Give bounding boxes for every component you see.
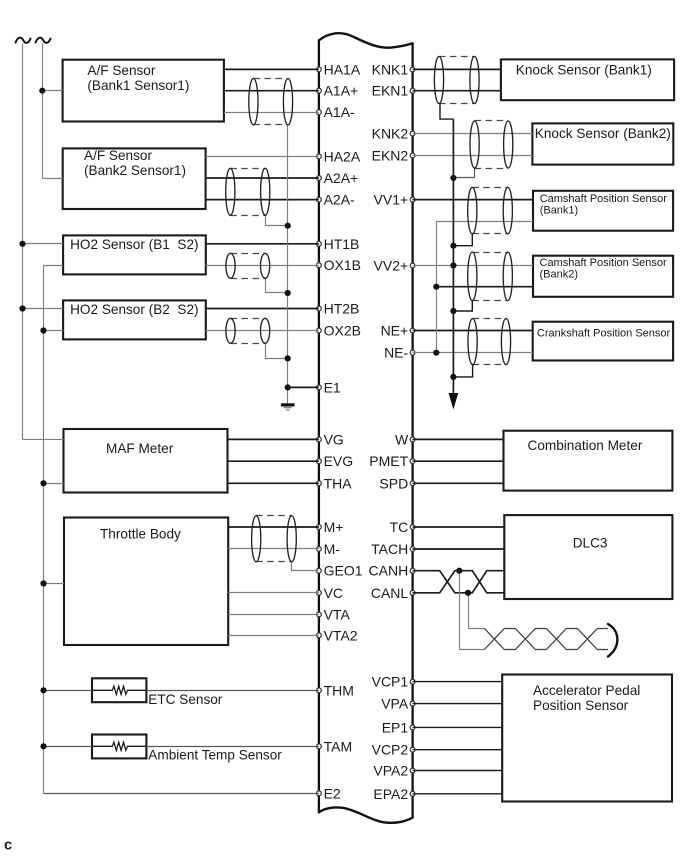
ECM pin EKN2 bbox=[372, 148, 415, 164]
wire HA1A bbox=[224, 68, 319, 70]
box Combination Meter bbox=[504, 431, 673, 491]
svg-text:VV2+: VV2+ bbox=[374, 258, 409, 274]
svg-text:OX1B: OX1B bbox=[324, 257, 361, 273]
wire NE+ bbox=[413, 330, 533, 332]
svg-text:M+: M+ bbox=[324, 519, 344, 535]
knock/cam shield drain rail (vertical) bbox=[452, 119, 454, 394]
svg-text:HA1A: HA1A bbox=[324, 61, 361, 77]
wire rail2 corner into A/F Bank2 bbox=[42, 178, 62, 180]
ECM pin THA bbox=[317, 475, 353, 491]
shield throttle motor cable bbox=[252, 516, 297, 562]
svg-text:GEO1: GEO1 bbox=[324, 563, 363, 579]
ECM pin SPD bbox=[379, 475, 415, 491]
junction CANH branch bbox=[456, 568, 462, 574]
svg-text:A/F Sensor: A/F Sensor bbox=[87, 63, 155, 78]
svg-text:Position Sensor: Position Sensor bbox=[533, 698, 629, 713]
box A/F Sensor (Bank2 Sensor1) bbox=[63, 148, 206, 209]
wire HA2A bbox=[206, 156, 319, 158]
junction NE- rail-NE- bbox=[433, 350, 439, 356]
junction drain-VV2+ bbox=[450, 262, 456, 268]
wire M+ bbox=[228, 526, 319, 528]
wire EPA2 to pedal sensor bbox=[413, 793, 503, 795]
ECM pin EP1 bbox=[382, 719, 415, 735]
box MAF Meter bbox=[64, 429, 228, 493]
ECM pin VV1+ bbox=[374, 192, 415, 208]
camshaft/crank return rail (vertical) bbox=[436, 222, 438, 353]
ECM pin TAM bbox=[317, 738, 353, 754]
shield A/F Bank1 cable bbox=[249, 78, 293, 125]
wire CANH (twisted pair upper) bbox=[413, 571, 505, 593]
svg-text:VCP1: VCP1 bbox=[372, 674, 409, 690]
svg-text:HO2 Sensor (B2 S2): HO2 Sensor (B2 S2) bbox=[70, 302, 198, 317]
svg-text:CANH: CANH bbox=[369, 563, 409, 579]
svg-text:A2A+: A2A+ bbox=[324, 170, 359, 186]
svg-text:EPA2: EPA2 bbox=[373, 786, 408, 802]
svg-text:EVG: EVG bbox=[324, 453, 354, 469]
box Camshaft Position Sensor (Bank1) bbox=[533, 191, 673, 231]
ECM pin A2A+ bbox=[317, 170, 359, 186]
ECM pin VC bbox=[317, 585, 344, 601]
box A/F Sensor (Bank1 Sensor1) bbox=[63, 60, 224, 122]
ECM pin E1 bbox=[317, 379, 341, 395]
wire THA bbox=[228, 482, 319, 484]
junction ground rail-THA bbox=[40, 480, 46, 486]
shield OX1B cable bbox=[226, 253, 270, 278]
ground symbol E1 bbox=[281, 405, 295, 410]
shield A/F Bank2 cable bbox=[226, 168, 270, 215]
wire TC bbox=[413, 526, 505, 528]
svg-text:(Bank1 Sensor1): (Bank1 Sensor1) bbox=[87, 78, 189, 93]
svg-text:VG: VG bbox=[324, 431, 344, 447]
wire VCP2 to pedal sensor bbox=[413, 749, 503, 751]
svg-text:TC: TC bbox=[390, 519, 409, 535]
svg-text:Camshaft Position Sensor: Camshaft Position Sensor bbox=[540, 257, 668, 269]
ECM pin EKN1 bbox=[372, 83, 415, 99]
svg-text:A2A-: A2A- bbox=[324, 192, 355, 208]
wire W bbox=[413, 438, 504, 440]
box Knock Sensor (Bank2) bbox=[532, 123, 673, 164]
shield drain camshaft Bank1 elbow bbox=[453, 234, 472, 246]
ECM pin OX1B bbox=[317, 257, 361, 273]
svg-text:HO2 Sensor (B1 S2): HO2 Sensor (B1 S2) bbox=[70, 237, 198, 252]
wire VV2+ bbox=[413, 265, 533, 267]
wire ground rail to ETC resistor bbox=[44, 690, 93, 692]
ECM connector right edge bbox=[411, 43, 413, 817]
svg-text:E1: E1 bbox=[324, 379, 341, 395]
junction drain-E1 bbox=[285, 384, 291, 390]
ECM pin THM bbox=[317, 682, 354, 698]
wire TACH bbox=[413, 548, 505, 550]
wire CANL (twisted pair lower) bbox=[413, 571, 505, 593]
svg-text:DLC3: DLC3 bbox=[573, 536, 608, 551]
ECM pin KNK2 bbox=[372, 126, 415, 142]
shield camshaft Bank1 cable bbox=[468, 187, 513, 234]
svg-text:PMET: PMET bbox=[369, 453, 408, 469]
svg-text:TACH: TACH bbox=[371, 541, 408, 557]
svg-text:KNK1: KNK1 bbox=[372, 61, 409, 77]
svg-text:NE-: NE- bbox=[384, 345, 408, 361]
junction drain-cam2 bbox=[450, 308, 456, 314]
ECM pin KNK1 bbox=[372, 61, 415, 77]
CAN branch drop 2 (vertical) bbox=[469, 593, 485, 629]
svg-text:Accelerator Pedal: Accelerator Pedal bbox=[533, 683, 640, 698]
wire PMET bbox=[413, 460, 504, 462]
junction ground rail-OX2B return bbox=[40, 327, 46, 333]
wire camshaft Bank2 return bbox=[436, 286, 533, 288]
ECM pin HT2B bbox=[317, 301, 360, 317]
twisted pair to body harness (upper wire) bbox=[484, 629, 608, 650]
twisted pair to body harness (lower wire) bbox=[484, 629, 608, 650]
svg-text:CANL: CANL bbox=[371, 585, 409, 601]
shield camshaft Bank2 cable bbox=[468, 252, 513, 301]
battery rail 1 (vertical wire) bbox=[22, 44, 24, 440]
junction ground rail-Ambient bbox=[40, 743, 46, 749]
svg-text:Throttle Body: Throttle Body bbox=[100, 527, 181, 542]
box DLC3 bbox=[504, 515, 672, 599]
ECM pin HA1A bbox=[317, 61, 361, 77]
svg-text:(Bank1): (Bank1) bbox=[540, 204, 579, 216]
ECM pin W bbox=[395, 431, 415, 447]
wire EKN2 bbox=[413, 155, 533, 157]
resistor box Ambient Temp Sensor bbox=[92, 735, 282, 763]
ECM pin VG bbox=[317, 431, 344, 447]
wire M- bbox=[228, 548, 319, 550]
svg-text:VCP2: VCP2 bbox=[372, 742, 409, 758]
ECM pin A1A- bbox=[317, 104, 356, 120]
wire THM bbox=[146, 690, 319, 692]
svg-text:ETC Sensor: ETC Sensor bbox=[148, 692, 223, 707]
wire KNK1 bbox=[413, 68, 501, 70]
wire GEO1 (shield drain elbow) bbox=[292, 562, 319, 571]
wire EVG bbox=[228, 460, 319, 462]
svg-text:OX2B: OX2B bbox=[324, 323, 361, 339]
wire A2A+ bbox=[206, 177, 319, 179]
ECM pin VPA bbox=[381, 696, 415, 712]
ECM pin PMET bbox=[369, 453, 415, 469]
svg-text:VPA2: VPA2 bbox=[373, 763, 408, 779]
CAN branch drop 1 (vertical) bbox=[460, 571, 485, 650]
twisted pair continuation mark (paren) bbox=[608, 624, 617, 657]
wire KNK2 bbox=[413, 133, 533, 135]
ECM pin NE+ bbox=[381, 323, 415, 339]
shield drain camshaft Bank2 elbow bbox=[453, 301, 472, 311]
junction rail1-HT1B bbox=[19, 241, 25, 247]
ECM pin HT1B bbox=[317, 236, 360, 252]
wire EP1 to pedal sensor bbox=[413, 726, 503, 728]
ECM pin GEO1 bbox=[317, 563, 363, 579]
ECM pin EPA2 bbox=[373, 786, 415, 802]
battery rail 1 break symbol (tilde) bbox=[16, 38, 31, 43]
box Crankshaft Position Sensor bbox=[533, 322, 673, 361]
wire A1A+ bbox=[224, 90, 319, 92]
wire VPA2 to pedal sensor bbox=[413, 770, 503, 772]
svg-text:HT1B: HT1B bbox=[324, 236, 360, 252]
junction NE- rail-cam2 return bbox=[433, 284, 439, 290]
ECM pin CANL bbox=[371, 585, 415, 601]
ECM pin CANH bbox=[369, 563, 415, 579]
svg-text:TAM: TAM bbox=[324, 738, 353, 754]
ECM pin M+ bbox=[317, 519, 344, 535]
ECM pin EVG bbox=[317, 453, 354, 469]
junction drain-OX1B bbox=[285, 290, 291, 296]
wire E1 bbox=[288, 386, 319, 388]
ECM pin TACH bbox=[371, 541, 415, 557]
junction rail1-HT2B bbox=[19, 305, 25, 311]
ECM pin A1A+ bbox=[317, 83, 359, 99]
box Throttle Body bbox=[64, 518, 228, 646]
wire VTA bbox=[228, 614, 319, 616]
svg-text:VC: VC bbox=[324, 585, 343, 601]
shield drain KNK2 elbow bbox=[454, 169, 475, 178]
svg-text:Knock Sensor (Bank2): Knock Sensor (Bank2) bbox=[535, 126, 671, 141]
svg-text:Knock Sensor (Bank1): Knock Sensor (Bank1) bbox=[516, 62, 652, 77]
svg-text:Camshaft Position Sensor: Camshaft Position Sensor bbox=[540, 193, 668, 205]
shield drain OX1B elbow bbox=[266, 279, 288, 293]
ECM pin VTA bbox=[317, 607, 351, 623]
wire HT2B bbox=[206, 308, 319, 310]
wire rail1 to HO2 B2 heater bbox=[23, 308, 64, 310]
svg-text:A1A+: A1A+ bbox=[324, 83, 359, 99]
svg-text:EKN2: EKN2 bbox=[372, 148, 409, 164]
shield knock sensor 1 cable bbox=[434, 57, 479, 104]
shield drain OX2B elbow bbox=[266, 344, 288, 359]
wire SPD bbox=[413, 482, 504, 484]
svg-text:Crankshaft Position Sensor: Crankshaft Position Sensor bbox=[537, 327, 671, 339]
ECM pin VTA2 bbox=[317, 627, 358, 643]
footer letter c bbox=[4, 838, 12, 854]
svg-text:VTA: VTA bbox=[324, 607, 351, 623]
svg-text:(Bank2 Sensor1): (Bank2 Sensor1) bbox=[84, 163, 186, 178]
svg-text:SPD: SPD bbox=[379, 475, 408, 491]
svg-text:VTA2: VTA2 bbox=[324, 627, 358, 643]
ECM pin VCP1 bbox=[372, 674, 415, 690]
wire rail1 to HO2 B1 heater bbox=[23, 243, 64, 245]
ECM pin A2A- bbox=[317, 192, 356, 208]
svg-text:VV1+: VV1+ bbox=[374, 192, 409, 208]
junction drain-OX2B bbox=[285, 355, 291, 361]
svg-text:THA: THA bbox=[324, 475, 353, 491]
ECM bottom wavy edge bbox=[319, 807, 413, 822]
junction CANL branch bbox=[465, 590, 471, 596]
box Accelerator Pedal Position Sensor bbox=[502, 675, 672, 802]
battery rail 2 (vertical wire) bbox=[42, 44, 44, 179]
shield OX2B cable bbox=[226, 318, 270, 343]
chassis ground arrow bbox=[449, 394, 457, 408]
svg-text:M-: M- bbox=[324, 541, 341, 557]
wire VG bbox=[228, 438, 319, 440]
wire ground rail to Ambient resistor bbox=[44, 746, 93, 748]
svg-text:NE+: NE+ bbox=[381, 323, 409, 339]
wire A1A- bbox=[224, 112, 319, 114]
box Camshaft Position Sensor (Bank2) bbox=[533, 256, 673, 297]
wire TAM bbox=[146, 746, 319, 748]
junction ground rail-ETC bbox=[40, 687, 46, 693]
svg-text:MAF Meter: MAF Meter bbox=[106, 441, 174, 456]
svg-text:A1A-: A1A- bbox=[324, 104, 355, 120]
svg-text:E2: E2 bbox=[324, 785, 341, 801]
wire OX2B bbox=[206, 330, 319, 332]
junction drain-crank bbox=[450, 374, 456, 380]
ECM pin M- bbox=[317, 541, 341, 557]
ECM pin VPA2 bbox=[373, 763, 415, 779]
ECM pin VV2+ bbox=[374, 258, 415, 274]
wire rail2 to A/F Bank1 bbox=[42, 90, 62, 92]
junction drain-KNK2 bbox=[450, 175, 456, 181]
junction drain-cam1 bbox=[450, 243, 456, 249]
box Knock Sensor (Bank1) bbox=[501, 59, 674, 100]
svg-text:(Bank2): (Bank2) bbox=[540, 268, 579, 280]
wire NE- bbox=[413, 352, 533, 354]
wire rail1 corner into MAF Meter bbox=[23, 438, 64, 440]
svg-text:THM: THM bbox=[324, 682, 354, 698]
svg-text:HT2B: HT2B bbox=[324, 301, 360, 317]
svg-text:W: W bbox=[395, 431, 409, 447]
shield knock sensor 2 cable bbox=[470, 121, 513, 169]
wire VTA2 bbox=[228, 635, 319, 637]
wire VC bbox=[228, 592, 319, 594]
ECM pin NE- bbox=[384, 345, 415, 361]
svg-text:c: c bbox=[4, 838, 12, 854]
wire OX1B bbox=[206, 265, 319, 267]
svg-text:KNK2: KNK2 bbox=[372, 126, 409, 142]
junction ground rail-Throttle Body bbox=[40, 580, 46, 586]
svg-text:EKN1: EKN1 bbox=[372, 83, 409, 99]
junction drain-A/F Bank2 bbox=[285, 223, 291, 229]
wire HT1B bbox=[206, 243, 319, 245]
ECM pin OX2B bbox=[317, 323, 361, 339]
wire camshaft Bank1 return bbox=[436, 221, 533, 223]
svg-text:VPA: VPA bbox=[381, 696, 409, 712]
wire HO2 B2 signal return to ground rail bbox=[44, 330, 64, 332]
wire HO2 B1 signal return to ground rail bbox=[44, 265, 64, 267]
ECM top wavy edge bbox=[319, 33, 413, 48]
shield drain A/F Bank2 elbow bbox=[266, 216, 288, 226]
ECM connector left edge bbox=[318, 40, 320, 812]
svg-text:Combination Meter: Combination Meter bbox=[528, 438, 643, 453]
ECM pin E2 bbox=[317, 785, 341, 801]
shield crankshaft cable bbox=[468, 319, 511, 365]
wire VPA to pedal sensor bbox=[413, 703, 503, 705]
wire VV1+ bbox=[413, 199, 533, 201]
wire A2A- bbox=[206, 199, 319, 201]
wire ground rail to MAF THA bbox=[44, 483, 64, 485]
junction rail2-A/F Bank1 bbox=[39, 88, 45, 94]
ECM pin HA2A bbox=[317, 148, 361, 164]
svg-text:HA2A: HA2A bbox=[324, 148, 361, 164]
ECM pin VCP2 bbox=[372, 742, 415, 758]
shield drain rail (left, to E1 ground) bbox=[287, 125, 289, 404]
svg-text:A/F Sensor: A/F Sensor bbox=[84, 148, 152, 163]
battery rail 2 break symbol (tilde) bbox=[36, 38, 51, 43]
resistor box ETC Sensor bbox=[92, 678, 223, 707]
wire EKN1 bbox=[413, 90, 501, 92]
box HO2 Sensor (B1 S2) bbox=[63, 235, 206, 274]
svg-text:Ambient Temp Sensor: Ambient Temp Sensor bbox=[148, 748, 282, 763]
wire ground rail to Throttle Body bbox=[44, 583, 65, 585]
svg-text:EP1: EP1 bbox=[382, 719, 409, 735]
shield drain crankshaft elbow bbox=[453, 365, 472, 377]
ECM pin TC bbox=[390, 519, 415, 535]
sensor-ground rail (vertical wire to E2) bbox=[43, 265, 45, 793]
box HO2 Sensor (B2 S2) bbox=[63, 300, 206, 339]
wire VCP1 to pedal sensor bbox=[413, 681, 503, 683]
shield drain KNK1 elbow bbox=[440, 104, 453, 120]
wire E2 bbox=[44, 793, 319, 795]
